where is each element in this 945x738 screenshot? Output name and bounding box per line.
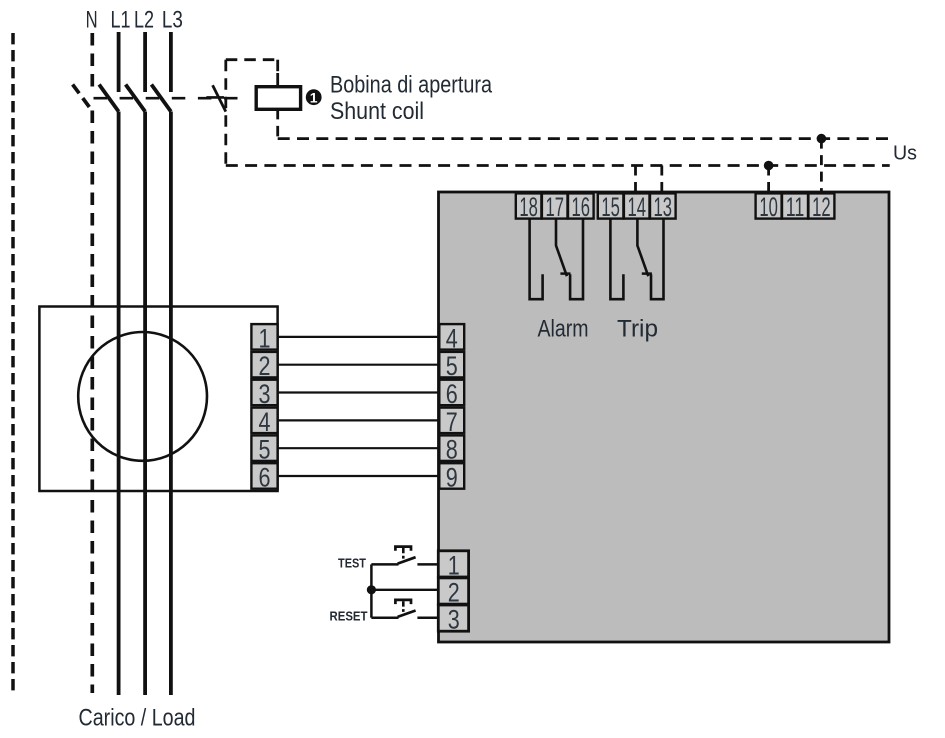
terminal 14 xyxy=(624,192,650,222)
auxiliary switch blade xyxy=(213,85,226,111)
wire dashed loop top xyxy=(226,58,278,61)
CT terminal 2 xyxy=(251,351,277,381)
terminal 5 xyxy=(439,351,464,381)
wire CT2 to relay5 xyxy=(278,364,440,366)
phase line L2 (lower segment) xyxy=(143,112,147,696)
terminal 11 xyxy=(782,192,808,222)
wire CT4 to relay7 xyxy=(278,419,440,421)
svg-text:N: N xyxy=(86,7,98,34)
wire terminal 13 dashed drop xyxy=(660,166,663,193)
trip contact blade 14 xyxy=(637,219,648,277)
terminal 1 xyxy=(438,550,468,580)
CT terminal 1 xyxy=(251,323,277,353)
svg-text:3: 3 xyxy=(259,379,271,409)
alarm contact fixed side 18 xyxy=(530,219,543,300)
phase line L2 (top segment) xyxy=(143,32,147,92)
svg-text:17: 17 xyxy=(545,192,564,222)
wire terminal 10 dashed drop xyxy=(767,166,770,193)
svg-text:4: 4 xyxy=(446,323,458,353)
trip contact fixed side 15 xyxy=(610,219,623,300)
RESET pushbutton cap xyxy=(395,600,411,604)
terminal 10 xyxy=(756,192,782,222)
wire CT6 to relay9 xyxy=(278,475,440,477)
phase line L3 (top segment) xyxy=(169,32,173,92)
CT toroid core circle xyxy=(78,332,207,461)
svg-text:Bobina di apertura: Bobina di apertura xyxy=(330,72,493,99)
breaker pole L1 blade xyxy=(99,85,119,112)
RESET pushbutton stem xyxy=(402,601,405,612)
shunt coil xyxy=(256,87,300,110)
neutral line N (top segment) xyxy=(90,33,94,90)
terminal 7 xyxy=(439,407,464,437)
svg-text:5: 5 xyxy=(259,435,271,465)
svg-text:14: 14 xyxy=(627,192,646,222)
breaker pole L2 blade xyxy=(126,85,146,112)
alarm contact fixed side 16 xyxy=(570,219,583,300)
terminal 15 xyxy=(598,192,624,222)
svg-text:TEST: TEST xyxy=(338,557,366,571)
phase line L3 (lower segment) xyxy=(169,112,173,696)
svg-text:9: 9 xyxy=(446,462,458,492)
wire TEST RESET common vertical xyxy=(370,564,373,617)
supply wire Us lower dashed xyxy=(226,164,890,167)
terminal 16 xyxy=(568,192,594,222)
svg-text:RESET: RESET xyxy=(330,610,368,624)
terminal 13 xyxy=(650,192,676,222)
terminal 8 xyxy=(439,435,464,465)
svg-text:3: 3 xyxy=(448,605,460,635)
CT terminal 6 xyxy=(251,462,277,492)
alarm contact blade 17 xyxy=(556,219,567,277)
wire common to terminal 2 xyxy=(371,589,439,591)
svg-text:L3: L3 xyxy=(162,7,183,34)
terminal 3 xyxy=(438,605,468,635)
svg-text:13: 13 xyxy=(654,192,673,222)
svg-text:Shunt coil: Shunt coil xyxy=(330,98,424,125)
wire coil bottom stub dashed xyxy=(276,109,279,139)
terminal 12 xyxy=(808,192,834,222)
wire dashed loop left vertical xyxy=(224,60,227,166)
trip contact tick xyxy=(642,272,652,275)
CT terminal 5 xyxy=(251,435,277,465)
neutral line N (lower segment) xyxy=(90,111,94,694)
relay U1 body xyxy=(439,192,890,642)
svg-text:Us: Us xyxy=(893,143,917,165)
CT toroid frame xyxy=(39,307,277,492)
svg-text:5: 5 xyxy=(446,351,458,381)
svg-text:2: 2 xyxy=(448,577,460,607)
terminal 9 xyxy=(439,462,464,492)
wire terminal 14 dashed drop xyxy=(634,166,637,193)
breaker pole N blade xyxy=(73,85,93,112)
TEST pushbutton cap xyxy=(395,547,411,551)
trip contact fixed side 13 xyxy=(651,219,664,300)
wire RESET left xyxy=(371,616,398,619)
svg-text:Carico / Load: Carico / Load xyxy=(79,705,196,732)
svg-text:15: 15 xyxy=(601,192,620,222)
auxiliary switch tick xyxy=(206,96,224,99)
terminal 18 xyxy=(516,192,542,222)
wire coil top stub solid xyxy=(276,73,279,87)
wire TEST left xyxy=(371,563,398,566)
CT terminal 4 xyxy=(251,407,277,437)
supply wire Us upper dashed xyxy=(278,137,889,140)
svg-text:10: 10 xyxy=(759,192,778,222)
TEST pushbutton stem xyxy=(402,548,405,559)
junction dot on upper Us wire xyxy=(817,134,827,144)
phase line L1 (top segment) xyxy=(117,32,121,92)
svg-text:4: 4 xyxy=(259,407,271,437)
wire CT1 to relay4 xyxy=(278,336,440,338)
svg-text:16: 16 xyxy=(572,192,591,222)
terminal 17 xyxy=(542,192,568,222)
svg-text:1: 1 xyxy=(448,550,460,580)
wire terminal 12 dashed drop xyxy=(820,139,823,192)
TEST switch blade S1 xyxy=(398,557,416,563)
svg-text:7: 7 xyxy=(446,407,458,437)
svg-text:1: 1 xyxy=(310,89,318,105)
svg-text:Trip: Trip xyxy=(617,316,658,343)
mechanical linkage dashed line xyxy=(94,97,251,100)
junction dot common xyxy=(367,585,376,594)
alarm contact tick xyxy=(560,272,570,275)
breaker pole L3 blade xyxy=(151,85,171,112)
wire RESET to terminal 3 xyxy=(417,616,439,619)
svg-text:Alarm: Alarm xyxy=(538,316,589,343)
junction dot on lower Us wire xyxy=(764,161,774,171)
svg-text:L2: L2 xyxy=(134,7,154,34)
svg-text:2: 2 xyxy=(259,351,271,381)
terminal 2 xyxy=(438,577,468,607)
boundary dashed line (left edge) xyxy=(11,33,15,694)
svg-text:8: 8 xyxy=(446,435,458,465)
note marker 1 xyxy=(306,89,322,105)
svg-text:1: 1 xyxy=(259,323,271,353)
terminal 6 xyxy=(439,379,464,409)
svg-text:18: 18 xyxy=(519,192,538,222)
svg-text:L1: L1 xyxy=(111,7,131,34)
wire CT5 to relay8 xyxy=(278,447,440,449)
terminal 4 xyxy=(439,323,464,353)
phase line L1 (lower segment) xyxy=(117,112,121,696)
CT terminal 3 xyxy=(251,379,277,409)
svg-text:11: 11 xyxy=(786,192,805,222)
wire coil top stub dashed xyxy=(276,60,279,74)
svg-text:12: 12 xyxy=(812,192,831,222)
wire TEST to terminal 1 xyxy=(417,563,439,566)
RESET switch blade S2 xyxy=(398,611,416,617)
svg-text:6: 6 xyxy=(259,462,271,492)
wire CT3 to relay6 xyxy=(278,391,440,393)
svg-text:6: 6 xyxy=(446,379,458,409)
